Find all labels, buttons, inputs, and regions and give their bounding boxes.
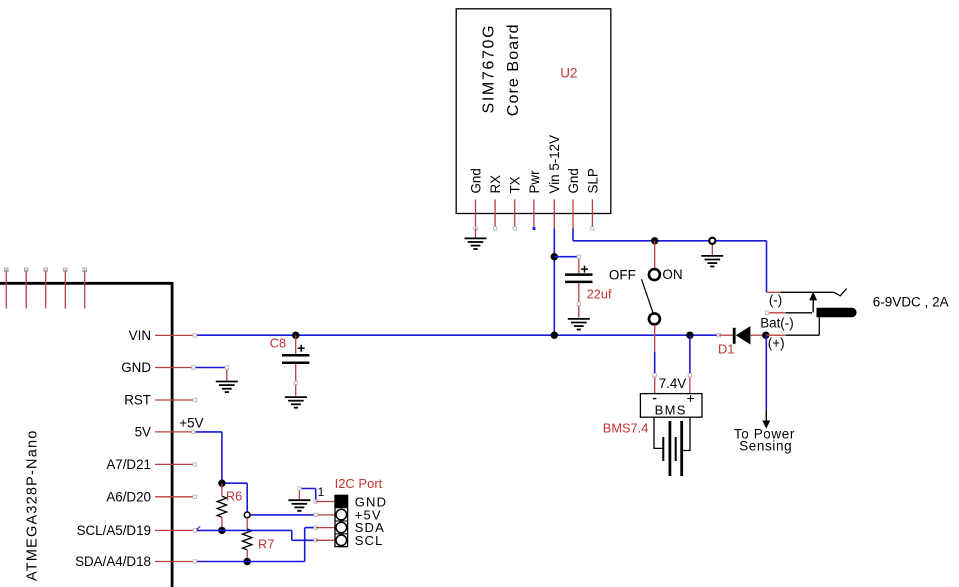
wire: tap to capacitor 22uf	[554, 256, 579, 258]
svg-text:+: +	[687, 391, 695, 406]
svg-text:(-): (-)	[769, 293, 782, 308]
svg-text:+5V: +5V	[179, 415, 203, 430]
IC U2 SIM7670G Core Board body	[456, 9, 611, 214]
svg-text:Bat(-): Bat(-)	[760, 315, 793, 330]
wire: open junction to I2C +5V pin	[250, 514, 316, 516]
pin Gnd (1) of U2	[468, 168, 483, 228]
wire: 5V pin to +5V rail corner	[194, 431, 222, 433]
wire: switch to BMS minus	[654, 352, 656, 375]
pin SLP of U2	[585, 168, 600, 228]
module BMS7.4	[603, 391, 702, 436]
pin Pwr of U2	[527, 170, 542, 230]
ground under U2 Gnd pin 1	[465, 228, 487, 249]
marker at A7/D21 pin end	[193, 463, 196, 466]
net: I2C GND pin 1 to ground	[298, 487, 318, 503]
svg-text:SCL/A5/D19: SCL/A5/D19	[77, 523, 151, 538]
svg-text:5V: 5V	[135, 425, 151, 440]
svg-text:Sensing: Sensing	[739, 438, 792, 453]
pin TX of U2	[508, 176, 523, 228]
junction: R7 / SDA net	[244, 558, 251, 565]
pin SCL/A5/D19 of U1	[77, 523, 195, 538]
svg-text:22uf: 22uf	[587, 287, 612, 302]
net SDA: U1 pin to I2C SDA	[193, 526, 317, 563]
pin stub into BMS plus	[689, 375, 691, 394]
pin A7/D21 of U1	[106, 457, 194, 472]
svg-text:D1: D1	[718, 341, 734, 356]
junction: rail / BMS+ branch	[686, 332, 693, 339]
svg-text:A7/D21: A7/D21	[106, 457, 151, 472]
pin Vin 5-12V of U2	[547, 135, 562, 229]
ground hanging from top rail	[701, 244, 723, 266]
net battery plus to plug tip	[766, 317, 820, 350]
ground at U1 GND	[216, 382, 238, 393]
svg-text:I2C Port: I2C Port	[335, 476, 383, 491]
svg-text:BMS7.4: BMS7.4	[603, 421, 649, 436]
switch S1 OFF/ON	[609, 241, 683, 352]
svg-text:SCL: SCL	[355, 533, 384, 548]
resistor R6	[217, 483, 242, 530]
svg-text:6-9VDC , 2A: 6-9VDC , 2A	[873, 295, 949, 310]
ground under C8	[285, 397, 307, 408]
net SCL: U1 pin to I2C SCL	[193, 527, 317, 542]
svg-text:Gnd: Gnd	[566, 168, 581, 193]
wire: drop to open junction	[246, 483, 248, 512]
pin Gnd (2) of U2	[566, 168, 581, 228]
battery B1	[654, 417, 690, 476]
jack J2 6-9VDC input, sleeve side	[767, 289, 847, 308]
pin RX of U2	[488, 175, 503, 229]
svg-text:C8: C8	[270, 336, 286, 351]
svg-text:TX: TX	[508, 176, 523, 193]
svg-text:ATMEGA328P-Nano: ATMEGA328P-Nano	[24, 429, 40, 581]
net Bat(-) stub to plug	[760, 311, 812, 330]
svg-text:Pwr: Pwr	[527, 170, 542, 194]
net: U1 GND to ground	[192, 366, 229, 381]
svg-text:GND: GND	[121, 360, 151, 375]
net: To Power Sensing	[734, 335, 795, 453]
pin 5V of U1	[135, 425, 194, 440]
marker at 5V pin end	[192, 430, 195, 433]
pin VIN of U1	[129, 328, 195, 343]
wire: Vin 5-12V pin down to main rail	[553, 228, 555, 335]
svg-text:RST: RST	[124, 393, 151, 408]
junction at capacitor C9 tap	[551, 253, 558, 260]
svg-text:Core Board: Core Board	[505, 23, 522, 116]
wire: +5V over to R7 column	[222, 482, 247, 484]
svg-text:RX: RX	[488, 175, 503, 194]
marker at RST pin end	[193, 398, 196, 401]
junction on top rail at switch	[651, 237, 658, 244]
svg-text:A6/D20: A6/D20	[106, 490, 151, 505]
wire: +5V vertical drop	[221, 432, 223, 483]
U2 pin end markers	[474, 227, 594, 230]
diode D1	[718, 326, 766, 356]
junction: rail / C8	[292, 332, 299, 339]
svg-text:U2: U2	[560, 66, 577, 81]
wire: main power rail	[196, 334, 719, 336]
wire: right drop of top rail to jack sleeve	[766, 241, 768, 292]
ground at I2C port	[288, 500, 310, 511]
unlabeled top pins of U1	[6, 270, 84, 309]
junction: R6 / SCL net	[218, 527, 225, 534]
svg-text:Gnd: Gnd	[468, 168, 483, 193]
jack plug barrel	[809, 292, 856, 318]
pin SDA/A4/D18 of U1	[75, 554, 195, 569]
svg-text:R6: R6	[226, 488, 242, 503]
wire: top gnd rail horizontal	[573, 240, 767, 242]
pin GND of U1	[121, 360, 193, 375]
svg-text:R7: R7	[258, 536, 274, 551]
marker at rail to D1	[717, 334, 720, 337]
marker at VIN pin end	[193, 334, 196, 337]
donut junction on top rail	[709, 238, 715, 244]
marker at A6/D20 pin end	[193, 495, 196, 498]
svg-text:SDA/A4/D18: SDA/A4/D18	[75, 554, 151, 569]
svg-text:BMS: BMS	[655, 403, 687, 418]
svg-text:VIN: VIN	[129, 328, 151, 343]
svg-text:OFF: OFF	[609, 267, 636, 282]
wire: rail to BMS plus	[689, 335, 691, 375]
open junction on +5V at R7	[244, 512, 250, 518]
svg-text:7.4V: 7.4V	[659, 376, 687, 391]
svg-text:Vin 5-12V: Vin 5-12V	[547, 135, 562, 194]
top pin end markers	[5, 268, 87, 271]
svg-text:(+): (+)	[768, 336, 785, 351]
svg-text:SIM7670G: SIM7670G	[481, 24, 498, 114]
pin A6/D20 of U1	[106, 490, 194, 505]
svg-text:SLP: SLP	[585, 168, 600, 193]
svg-text:ON: ON	[662, 267, 682, 282]
wire: U2 Gnd2 down to top gnd rail	[572, 228, 574, 240]
svg-text:1: 1	[318, 485, 325, 499]
junction: +5V / R6	[218, 480, 225, 487]
connector J1 I2C Port	[314, 476, 387, 548]
junction: rail / Vin drop	[551, 332, 558, 339]
resistor R7	[243, 518, 275, 562]
junction: D1 / battery plus	[762, 332, 769, 339]
ground under 22uf	[568, 319, 590, 330]
capacitor C8	[270, 335, 310, 396]
pin RST of U1	[124, 393, 195, 408]
capacitor C9 22uf	[565, 255, 612, 317]
pin stub into BMS minus	[654, 375, 656, 394]
IC U1 ATMEGA328P-Nano body	[0, 282, 172, 587]
